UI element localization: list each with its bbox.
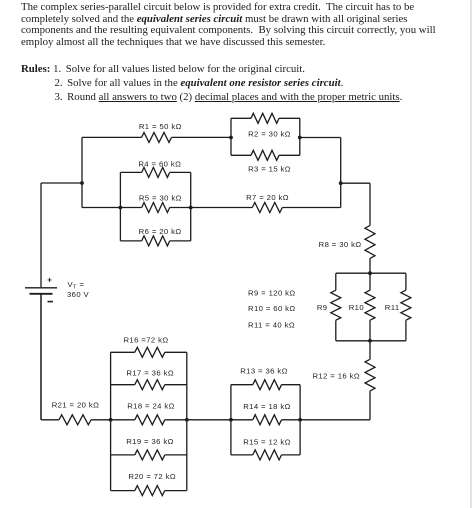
svg-text:R15 = 12 kΩ: R15 = 12 kΩ xyxy=(243,437,291,446)
svg-text:R14 = 18 kΩ: R14 = 18 kΩ xyxy=(243,402,291,411)
svg-text:VT =: VT = xyxy=(68,280,85,291)
svg-text:360 V: 360 V xyxy=(67,290,90,299)
svg-text:R5 = 30 kΩ: R5 = 30 kΩ xyxy=(139,194,182,203)
svg-text:R7 = 20 kΩ: R7 = 20 kΩ xyxy=(246,193,289,202)
svg-text:R4 = 60 kΩ: R4 = 60 kΩ xyxy=(138,159,181,168)
svg-text:R11 = 40 kΩ: R11 = 40 kΩ xyxy=(248,320,295,329)
svg-text:R10: R10 xyxy=(349,303,364,312)
svg-text:R18 = 24 kΩ: R18 = 24 kΩ xyxy=(127,402,175,411)
svg-text:R11: R11 xyxy=(385,303,400,312)
svg-text:R21 = 20 kΩ: R21 = 20 kΩ xyxy=(52,401,100,410)
svg-text:R16 =72 kΩ: R16 =72 kΩ xyxy=(123,336,168,345)
svg-text:R9: R9 xyxy=(317,303,328,312)
svg-text:R9 = 120 kΩ: R9 = 120 kΩ xyxy=(248,288,296,297)
svg-text:R6 = 20 kΩ: R6 = 20 kΩ xyxy=(139,227,182,236)
svg-text:+: + xyxy=(47,276,52,285)
svg-text:R13 = 36 kΩ: R13 = 36 kΩ xyxy=(240,367,288,376)
svg-text:R20 = 72 kΩ: R20 = 72 kΩ xyxy=(128,472,176,481)
svg-text:R17 = 36 kΩ: R17 = 36 kΩ xyxy=(126,368,174,377)
svg-text:R1 = 50 kΩ: R1 = 50 kΩ xyxy=(139,122,182,131)
svg-text:R8 = 30 kΩ: R8 = 30 kΩ xyxy=(319,240,362,249)
svg-text:R2 = 30 kΩ: R2 = 30 kΩ xyxy=(248,130,291,139)
svg-text:R10 = 60 kΩ: R10 = 60 kΩ xyxy=(248,304,296,313)
svg-text:R19 = 36 kΩ: R19 = 36 kΩ xyxy=(126,437,174,446)
svg-text:R12 = 16 kΩ: R12 = 16 kΩ xyxy=(312,372,360,381)
svg-text:R3 = 15 kΩ: R3 = 15 kΩ xyxy=(248,165,291,174)
